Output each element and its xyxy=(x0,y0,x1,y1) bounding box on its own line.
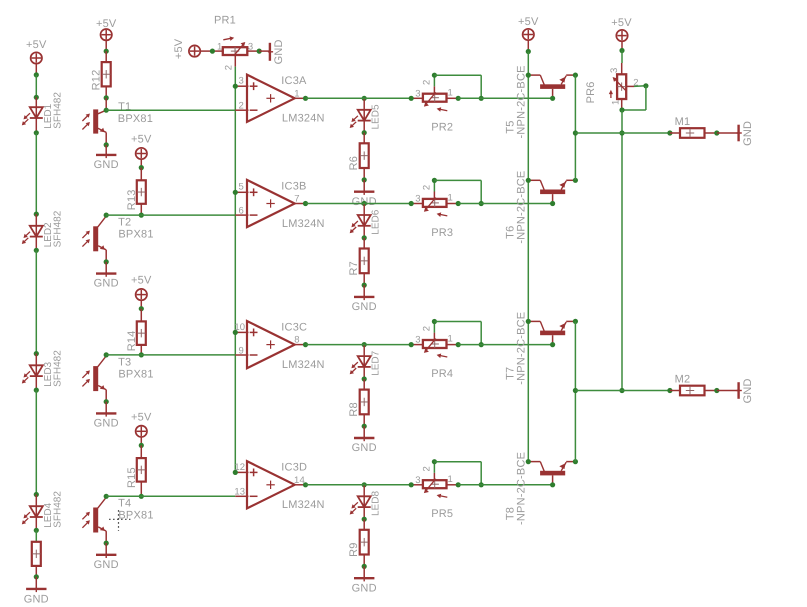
svg-text:R15: R15 xyxy=(126,467,138,488)
ground GND (T4) xyxy=(105,543,107,555)
svg-text:PR3: PR3 xyxy=(431,227,453,239)
node junction xyxy=(139,494,144,499)
wire (T4 node to IC3D -in) xyxy=(104,494,109,499)
op-amp IC3C LM324N xyxy=(247,321,295,368)
svg-text:1: 1 xyxy=(447,474,452,485)
svg-text:BPX81: BPX81 xyxy=(118,368,153,380)
op-amp IC3A LM324N xyxy=(247,75,295,122)
svg-text:LM324N: LM324N xyxy=(282,359,325,371)
phototransistor T4 BPX81 xyxy=(98,497,106,508)
ground GND (M2) xyxy=(717,390,739,392)
phototransistor T1 BPX81 xyxy=(105,98,107,110)
svg-text:+5V: +5V xyxy=(26,39,47,51)
svg-text:T4: T4 xyxy=(118,498,131,510)
svg-text:GND: GND xyxy=(352,442,377,454)
svg-text:+5V: +5V xyxy=(96,18,117,30)
wire (IC33 output) xyxy=(306,203,412,205)
node junction (T5 emitter) xyxy=(573,73,578,78)
power +5V (R14) xyxy=(136,289,147,300)
node junction (IC3C +in) xyxy=(233,330,238,335)
node junction xyxy=(714,388,719,393)
svg-text:2: 2 xyxy=(422,326,433,331)
resistor R14 xyxy=(140,309,142,322)
node junction (IC3C out) xyxy=(303,342,308,347)
wire (PR6 to motor nodes) xyxy=(621,110,623,391)
wire (PR6 pin2 loop) xyxy=(645,86,647,110)
svg-text:2: 2 xyxy=(422,466,433,471)
node junction xyxy=(210,49,215,54)
transistor T6 NPN xyxy=(528,179,540,181)
svg-text:R12: R12 xyxy=(91,70,103,91)
svg-text:6: 6 xyxy=(238,206,243,217)
node junction xyxy=(34,388,39,393)
svg-text:GND: GND xyxy=(273,39,285,64)
node junction (LED8) xyxy=(362,482,367,487)
wire (M2 feed) xyxy=(575,390,670,392)
wire (PR4 wiper loop) xyxy=(433,322,435,333)
node junction xyxy=(456,482,461,487)
node junction (IC3B out) xyxy=(303,201,308,206)
svg-text:+5V: +5V xyxy=(518,16,539,28)
svg-text:+5V: +5V xyxy=(131,411,152,423)
diode LED3 SFH482 xyxy=(35,365,37,390)
node junction xyxy=(104,541,109,546)
wire (PR2 wiper loop) xyxy=(433,75,435,86)
resistor R9 xyxy=(363,519,365,530)
diode LED1 SFH482 xyxy=(35,107,37,133)
node junction xyxy=(409,482,414,487)
svg-text:2: 2 xyxy=(224,65,235,70)
svg-text:13: 13 xyxy=(234,487,245,498)
power +5V supply (LED chain) xyxy=(31,52,42,63)
ground GND (R9) xyxy=(363,566,365,578)
node junction (T5 collector) xyxy=(526,73,531,78)
node junction xyxy=(362,235,367,240)
wire xyxy=(35,390,37,494)
svg-text:LM324N: LM324N xyxy=(282,113,325,125)
wire (M1 feed) xyxy=(575,132,670,134)
node junction (IC3A out) xyxy=(303,96,308,101)
svg-text:-NPN-2C-BCE: -NPN-2C-BCE xyxy=(516,312,528,385)
svg-text:PR6: PR6 xyxy=(585,81,597,103)
wire xyxy=(35,75,37,97)
svg-text:-NPN-2C-BCE: -NPN-2C-BCE xyxy=(516,65,528,138)
svg-text:9: 9 xyxy=(238,345,243,356)
node junction xyxy=(139,443,144,448)
svg-text:GND: GND xyxy=(94,559,119,571)
power +5V (transistor rail) xyxy=(523,29,534,40)
svg-text:2: 2 xyxy=(238,101,243,112)
node junction xyxy=(34,212,39,217)
power +5V (PR6) xyxy=(616,30,627,41)
node junction xyxy=(139,352,144,357)
svg-text:LM324N: LM324N xyxy=(282,499,325,511)
svg-text:T6: T6 xyxy=(505,226,517,239)
svg-text:LM324N: LM324N xyxy=(282,218,325,230)
node junction xyxy=(34,130,39,135)
node junction xyxy=(619,48,624,53)
svg-text:GND: GND xyxy=(742,121,754,146)
node junction xyxy=(619,130,624,135)
resistor R12 xyxy=(105,51,107,62)
node junction xyxy=(409,201,414,206)
svg-text:IC3C: IC3C xyxy=(281,321,307,333)
power +5V (R13) xyxy=(136,148,147,159)
resistor (LED chain, unlabeled) xyxy=(35,530,37,542)
node junction xyxy=(34,351,39,356)
node junction xyxy=(34,574,39,579)
power +5V (R12) xyxy=(101,29,112,40)
svg-text:PR5: PR5 xyxy=(431,508,453,520)
potentiometer PR6 xyxy=(621,51,623,64)
svg-text:LED5: LED5 xyxy=(371,104,382,129)
node junction xyxy=(573,388,578,393)
svg-text:GND: GND xyxy=(352,582,377,594)
node junction xyxy=(139,213,144,218)
svg-text:R8: R8 xyxy=(348,402,360,416)
diode LED6 xyxy=(363,204,365,238)
node junction (PR6 pin1) xyxy=(619,107,624,112)
svg-text:T5: T5 xyxy=(505,120,517,133)
resistor R15 xyxy=(140,445,142,458)
wire xyxy=(35,133,37,214)
svg-text:7: 7 xyxy=(294,194,299,205)
svg-text:T7: T7 xyxy=(505,367,517,380)
node junction xyxy=(479,201,484,206)
ground GND (PR1) xyxy=(259,50,270,52)
node junction (LED7) xyxy=(362,342,367,347)
node junction xyxy=(104,399,109,404)
svg-text:+5V: +5V xyxy=(611,17,632,29)
node junction xyxy=(34,528,39,533)
op-amp IC3D LM324N xyxy=(247,461,295,508)
wire (PR3 wiper loop) xyxy=(433,180,435,191)
node junction xyxy=(619,388,624,393)
node junction (T6 collector) xyxy=(526,178,531,183)
diode LED7 xyxy=(363,345,365,379)
svg-text:R9: R9 xyxy=(348,542,360,556)
node junction xyxy=(104,95,109,100)
power +5V (PR1) xyxy=(189,45,200,56)
svg-text:2: 2 xyxy=(422,185,433,190)
svg-text:1: 1 xyxy=(294,88,299,99)
svg-text:2: 2 xyxy=(422,79,433,84)
node junction xyxy=(34,72,39,77)
ground GND (T2) xyxy=(105,262,107,274)
svg-text:-NPN-2C-BCE: -NPN-2C-BCE xyxy=(516,452,528,525)
svg-text:T1: T1 xyxy=(118,101,131,113)
node junction xyxy=(34,248,39,253)
node junction xyxy=(104,142,109,147)
svg-text:T2: T2 xyxy=(118,217,131,229)
wire (IC34 output) xyxy=(306,344,412,346)
node junction (T7 base) xyxy=(550,342,555,347)
node junction xyxy=(573,130,578,135)
node junction (T6 emitter) xyxy=(573,178,578,183)
svg-text:+5V: +5V xyxy=(173,38,185,59)
wire (T5/T6 emitter rail) xyxy=(574,75,576,180)
node junction (IC3B +in) xyxy=(233,190,238,195)
node junction xyxy=(456,201,461,206)
node junction xyxy=(139,306,144,311)
node junction (T8 emitter) xyxy=(573,459,578,464)
node junction xyxy=(362,564,367,569)
node junction xyxy=(362,283,367,288)
svg-text:SFH482: SFH482 xyxy=(52,92,63,129)
node junction xyxy=(456,96,461,101)
svg-text:BPX81: BPX81 xyxy=(118,510,153,522)
node junction xyxy=(456,342,461,347)
node junction xyxy=(362,376,367,381)
svg-text:R14: R14 xyxy=(126,331,138,352)
svg-text:SFH482: SFH482 xyxy=(52,350,63,387)
svg-text:R6: R6 xyxy=(348,156,360,170)
svg-text:SFH482: SFH482 xyxy=(52,491,63,528)
ground GND (LED chain) xyxy=(35,577,37,589)
node junction xyxy=(409,96,414,101)
svg-text:5: 5 xyxy=(238,182,243,193)
node junction (IC3D out) xyxy=(303,482,308,487)
svg-text:3: 3 xyxy=(609,67,620,72)
ground GND (T1) xyxy=(105,145,107,155)
wire (PR2 to transistor base) xyxy=(458,97,552,99)
svg-text:8: 8 xyxy=(294,335,299,346)
node junction xyxy=(34,492,39,497)
transistor T5 NPN xyxy=(528,74,540,76)
wire (T1 node to IC3A -in) xyxy=(104,108,109,113)
node junction (PR6 pin2) xyxy=(643,83,648,88)
svg-text:PR2: PR2 xyxy=(431,122,453,134)
node junction xyxy=(139,165,144,170)
svg-text:IC3D: IC3D xyxy=(281,462,307,474)
svg-text:3: 3 xyxy=(238,76,243,87)
node junction (LED5) xyxy=(362,96,367,101)
svg-text:SFH482: SFH482 xyxy=(52,210,63,247)
transistor T8 NPN xyxy=(528,461,540,463)
svg-text:LED8: LED8 xyxy=(371,491,382,516)
svg-text:PR1: PR1 xyxy=(214,15,236,27)
node junction xyxy=(479,96,484,101)
node junction xyxy=(714,130,719,135)
ground GND (R7) xyxy=(363,285,365,297)
svg-text:GND: GND xyxy=(24,594,49,606)
diode LED5 xyxy=(363,98,365,132)
node junction (IC3D +in) xyxy=(233,470,238,475)
wire (IC32 output) xyxy=(306,97,412,99)
transistor T7 NPN xyxy=(528,320,540,322)
svg-text:IC3B: IC3B xyxy=(281,180,306,192)
node junction xyxy=(362,517,367,522)
node junction xyxy=(104,259,109,264)
svg-text:LED7: LED7 xyxy=(371,350,382,375)
wire (T2 node to IC3B -in) xyxy=(104,213,109,218)
ground GND (R8) xyxy=(363,426,365,438)
node junction xyxy=(526,49,531,54)
svg-text:M2: M2 xyxy=(675,374,691,386)
svg-text:IC3A: IC3A xyxy=(281,75,307,87)
svg-text:+5V: +5V xyxy=(131,275,152,287)
svg-text:1: 1 xyxy=(447,87,452,98)
resistor R8 xyxy=(363,379,365,390)
wire (PR5 to transistor base) xyxy=(458,484,552,486)
svg-text:GND: GND xyxy=(94,159,119,171)
phototransistor T2 BPX81 xyxy=(98,216,106,227)
phototransistor T3 BPX81 xyxy=(98,356,106,367)
svg-text:M1: M1 xyxy=(675,116,691,128)
node junction (IC3A +in) xyxy=(233,84,238,89)
resistor R13 xyxy=(140,168,142,181)
node junction (T7 emitter) xyxy=(573,319,578,324)
resistor R7 xyxy=(363,238,365,249)
wire (PR4 to transistor base) xyxy=(458,344,552,346)
diode LED8 xyxy=(363,485,365,519)
wire (PR1 wiper rail to + inputs) xyxy=(234,55,236,67)
node junction xyxy=(104,49,109,54)
node junction xyxy=(34,95,39,100)
node junction (T8 base) xyxy=(550,482,555,487)
op-amp IC3B LM324N xyxy=(247,180,295,227)
svg-text:+5V: +5V xyxy=(131,134,152,146)
svg-text:T8: T8 xyxy=(505,507,517,520)
power +5V (R15) xyxy=(136,426,147,437)
node junction xyxy=(667,388,672,393)
node junction xyxy=(667,130,672,135)
node junction xyxy=(362,177,367,182)
node junction xyxy=(409,342,414,347)
diode LED4 SFH482 xyxy=(35,506,37,530)
ground GND (T3) xyxy=(105,402,107,414)
wire xyxy=(35,250,37,353)
svg-text:1: 1 xyxy=(610,100,621,105)
node junction (T6 base) xyxy=(550,201,555,206)
node junction (T8 collector) xyxy=(526,459,531,464)
wire (+5V collector rail) xyxy=(527,52,529,462)
node junction xyxy=(362,130,367,135)
node junction (T7 collector) xyxy=(526,319,531,324)
wire (IC35 output) xyxy=(306,484,412,486)
node junction (T5 base) xyxy=(550,96,555,101)
node junction xyxy=(479,482,484,487)
svg-text:BPX81: BPX81 xyxy=(118,229,153,241)
cursor crosshair mark xyxy=(109,518,130,520)
svg-text:BPX81: BPX81 xyxy=(118,113,153,125)
node junction (LED6) xyxy=(362,201,367,206)
node junction xyxy=(362,424,367,429)
resistor R6 xyxy=(363,133,365,144)
svg-text:-NPN-2C-BCE: -NPN-2C-BCE xyxy=(516,171,528,244)
wire (T7/T8 emitter rail) xyxy=(574,321,576,461)
diode LED2 SFH482 xyxy=(35,226,37,251)
svg-text:PR4: PR4 xyxy=(431,368,453,380)
svg-text:R13: R13 xyxy=(126,189,138,210)
wire (PR5 wiper loop) xyxy=(433,462,435,473)
svg-text:GND: GND xyxy=(94,278,119,290)
node junction xyxy=(257,49,262,54)
svg-text:GND: GND xyxy=(94,418,119,430)
svg-text:1: 1 xyxy=(447,334,452,345)
svg-text:LED6: LED6 xyxy=(371,209,382,234)
svg-text:GND: GND xyxy=(742,378,754,403)
ground GND (R6) xyxy=(363,180,365,192)
node junction xyxy=(479,342,484,347)
svg-text:1: 1 xyxy=(447,193,452,204)
svg-text:GND: GND xyxy=(352,301,377,313)
svg-text:T3: T3 xyxy=(118,356,131,368)
svg-text:R7: R7 xyxy=(348,261,360,275)
wire (PR3 to transistor base) xyxy=(458,203,552,205)
ground GND (M1) xyxy=(717,132,739,134)
wire (T3 node to IC3C -in) xyxy=(104,352,109,357)
